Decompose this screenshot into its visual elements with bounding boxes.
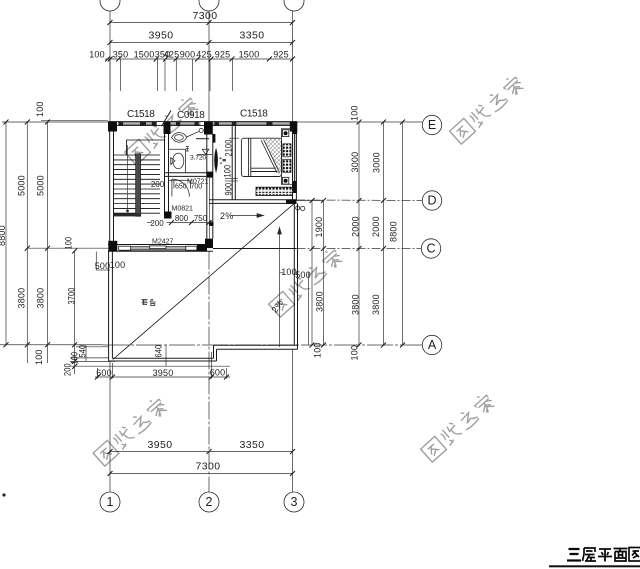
svg-text:425: 425: [196, 50, 212, 60]
svg-text:D: D: [427, 194, 436, 208]
svg-text:200: 200: [63, 363, 73, 376]
svg-text:600: 600: [96, 368, 112, 378]
svg-text:350: 350: [113, 50, 129, 60]
svg-text:925: 925: [273, 50, 289, 60]
svg-text:3350: 3350: [240, 439, 265, 451]
svg-text:100: 100: [34, 349, 44, 365]
svg-text:3950: 3950: [149, 30, 174, 42]
svg-text:M2427: M2427: [152, 239, 174, 246]
svg-text:650: 650: [175, 184, 187, 191]
svg-text:425: 425: [164, 50, 180, 60]
svg-text:1: 1: [107, 495, 114, 509]
svg-text:2000: 2000: [351, 216, 361, 237]
svg-text:100: 100: [89, 50, 105, 60]
svg-text:C1518: C1518: [240, 109, 268, 120]
svg-text:2000: 2000: [371, 216, 381, 237]
svg-text:3.720: 3.720: [190, 155, 206, 162]
svg-text:600: 600: [210, 367, 226, 377]
svg-text:1900: 1900: [314, 217, 324, 238]
svg-text:3700: 3700: [67, 287, 77, 304]
svg-text:3350: 3350: [240, 30, 265, 42]
svg-text:2: 2: [206, 495, 213, 509]
svg-text:100: 100: [350, 345, 360, 361]
svg-text:100: 100: [64, 236, 74, 249]
svg-text:3000: 3000: [372, 152, 382, 173]
svg-text:C0918: C0918: [177, 110, 205, 121]
svg-text:3: 3: [291, 495, 298, 509]
svg-text:100: 100: [350, 105, 360, 121]
svg-text:2%: 2%: [220, 211, 233, 221]
svg-text:100: 100: [70, 351, 80, 364]
svg-text:640: 640: [154, 344, 164, 357]
svg-text:2100: 2100: [224, 139, 234, 156]
svg-text:8800: 8800: [0, 225, 7, 246]
svg-text:3800: 3800: [17, 288, 27, 309]
svg-text:8800: 8800: [389, 221, 399, 242]
svg-text:7300: 7300: [193, 10, 218, 22]
svg-text:3800: 3800: [371, 294, 381, 315]
svg-text:3800: 3800: [36, 288, 46, 309]
svg-text:C1518: C1518: [127, 109, 155, 120]
svg-text:5000: 5000: [17, 175, 27, 196]
svg-text:100: 100: [313, 342, 323, 358]
svg-text:3950: 3950: [148, 439, 173, 451]
svg-text:200: 200: [150, 219, 164, 228]
svg-text:900: 900: [180, 50, 196, 60]
svg-text:1500: 1500: [239, 50, 260, 60]
svg-text:900: 900: [224, 182, 234, 195]
svg-text:3800: 3800: [315, 291, 325, 312]
svg-text:3800: 3800: [351, 294, 361, 315]
svg-text:E: E: [428, 118, 436, 132]
svg-text:100: 100: [223, 164, 233, 177]
svg-text:C: C: [426, 242, 435, 256]
svg-text:A: A: [428, 338, 437, 352]
svg-text:3000: 3000: [350, 152, 360, 173]
svg-text:100: 100: [35, 101, 45, 117]
svg-text:200: 200: [151, 180, 165, 189]
svg-text:700: 700: [191, 184, 203, 191]
svg-text:7300: 7300: [196, 461, 221, 473]
svg-text:500: 500: [95, 261, 111, 271]
svg-text:750: 750: [194, 214, 208, 223]
svg-text:1500: 1500: [134, 50, 155, 60]
svg-text:3950: 3950: [153, 368, 174, 378]
svg-text:925: 925: [215, 50, 231, 60]
svg-text:5000: 5000: [36, 175, 46, 196]
svg-text:M0821: M0821: [172, 206, 194, 213]
svg-text:800: 800: [175, 214, 189, 223]
